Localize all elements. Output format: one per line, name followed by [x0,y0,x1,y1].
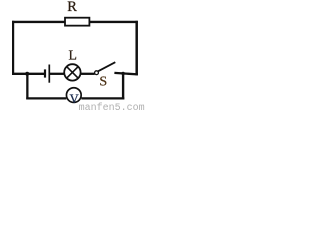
wire lamp to switch [81,73,95,75]
wire bottom-right horizontal [81,97,124,99]
wire top-right horizontal [89,21,138,23]
node B junction right [121,72,124,75]
switch S pivot circle [95,71,99,75]
wire battery to lamp [50,73,64,75]
battery cell short plate [44,69,46,77]
wire bottom-left horizontal [26,97,66,99]
wire top-left horizontal [12,21,66,23]
wire middle-right horizontal [114,73,137,75]
battery cell long plate [48,65,50,83]
resistor R [65,18,89,26]
svg-text:manfen5.com: manfen5.com [79,102,145,112]
wire voltmeter branch left vertical [26,74,28,100]
wire right vertical [135,21,138,76]
wire middle-left horizontal [12,73,45,75]
lamp L circle [64,64,80,80]
svg-text:S: S [99,74,107,89]
wire voltmeter branch right vertical [122,74,124,100]
wire left vertical [12,21,14,75]
switch S blade [98,62,115,71]
lamp L cross diagonal 1 [67,67,79,79]
svg-text:V: V [70,92,79,106]
svg-text:L: L [69,48,77,63]
svg-text:R: R [67,0,77,15]
node A junction dot left [25,72,29,76]
lamp L cross diagonal 2 [67,67,79,79]
voltmeter V circle [66,88,81,103]
